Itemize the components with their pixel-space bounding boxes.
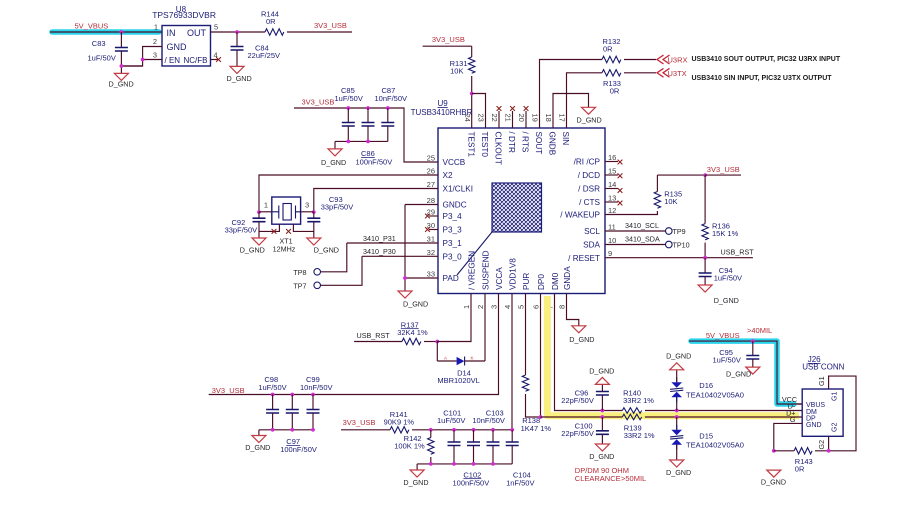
svg-text:NC/FB: NC/FB xyxy=(184,56,208,65)
note text U3RX xyxy=(692,56,841,63)
wire VCCA pin 3 to 3V3_USB rail xyxy=(209,294,499,397)
svg-text:GNDB: GNDB xyxy=(548,132,557,156)
ground D_GND at GNDB xyxy=(577,107,602,124)
svg-text:33pF/50V: 33pF/50V xyxy=(225,226,258,235)
svg-text:14: 14 xyxy=(608,180,616,189)
test point TP8 xyxy=(293,243,346,277)
svg-text:3410_SDA: 3410_SDA xyxy=(625,235,660,244)
net label 3V3_USB (top) xyxy=(314,21,347,30)
wire TEST0 branch xyxy=(472,94,486,129)
no-connect X pins 22 21 20 xyxy=(497,106,529,128)
svg-text:>50MIL: >50MIL xyxy=(621,474,646,483)
net label 3V3_USB (R141) xyxy=(343,418,376,427)
svg-text:27: 27 xyxy=(427,180,435,189)
svg-text:TEST0: TEST0 xyxy=(480,132,489,158)
svg-text:32: 32 xyxy=(427,248,435,257)
svg-text:/ DTR: / DTR xyxy=(507,132,516,153)
svg-text:G1: G1 xyxy=(832,392,839,401)
wire node to VREGEN pin 1 xyxy=(437,294,471,342)
svg-text:A: A xyxy=(444,356,447,361)
svg-text:15K 1%: 15K 1% xyxy=(712,229,739,238)
capacitor C83 1uF/50V xyxy=(88,32,143,73)
svg-text:3V3_USB: 3V3_USB xyxy=(707,165,740,174)
ground D_GND decoupling rail xyxy=(321,149,346,167)
svg-text:24: 24 xyxy=(463,114,472,122)
svg-text:23: 23 xyxy=(477,114,486,122)
svg-text:SDA: SDA xyxy=(583,241,600,250)
wire DM0 pin 7 trace xyxy=(555,294,623,413)
note text U3TX xyxy=(692,75,833,82)
svg-text:/RI /CP: /RI /CP xyxy=(574,158,601,167)
net label 3V3_USB (right) xyxy=(707,165,740,174)
svg-text:D_GND: D_GND xyxy=(666,352,691,361)
resistor R133 0R xyxy=(602,70,621,96)
svg-text:1uF/50V: 1uF/50V xyxy=(335,94,363,103)
note 40MIL xyxy=(747,326,772,335)
wire 5V_VBUS input with cyan highlight xyxy=(50,30,162,34)
svg-text:P3_4: P3_4 xyxy=(443,212,463,221)
diode D14 MBR1020VL xyxy=(437,342,485,385)
svg-text:TP10: TP10 xyxy=(673,241,690,250)
svg-text:10K: 10K xyxy=(664,197,677,206)
svg-text:9: 9 xyxy=(608,249,612,258)
wire USB GND pin xyxy=(772,423,802,452)
svg-text:K: K xyxy=(471,356,474,361)
test point TP7 xyxy=(293,256,362,290)
svg-text:PAD: PAD xyxy=(443,274,459,283)
svg-text:10nF/50V: 10nF/50V xyxy=(375,94,408,103)
svg-text:18: 18 xyxy=(544,114,553,122)
svg-text:SOUT: SOUT xyxy=(534,132,543,155)
resistor R138 1K47 1% PUR pullup xyxy=(521,294,552,433)
svg-text:/ RESET: / RESET xyxy=(568,254,600,263)
capacitor C93 33pF/50V xyxy=(307,195,353,238)
ground D_GND below C92 xyxy=(240,238,266,254)
svg-text:0R: 0R xyxy=(266,17,276,26)
svg-text:PUR: PUR xyxy=(522,273,531,290)
svg-text:P3_1: P3_1 xyxy=(443,239,463,248)
svg-text:32K4 1%: 32K4 1% xyxy=(397,328,428,337)
svg-text:10nF/50V: 10nF/50V xyxy=(472,416,505,425)
capacitor C102 100nF/50V xyxy=(453,430,490,488)
wire C98 C97 C99 ground rail xyxy=(259,428,315,436)
svg-text:D_GND: D_GND xyxy=(589,367,614,376)
capacitor C97 100nF/50V xyxy=(280,395,317,455)
capacitor C84 22uF/25V xyxy=(231,32,281,66)
svg-text:3V3_USB: 3V3_USB xyxy=(212,386,245,395)
wire X2 to crystal xyxy=(257,175,438,214)
net label 5V_VBUS (right) xyxy=(706,331,740,340)
crystal case ground stubs xyxy=(259,224,314,234)
svg-text:SIN: SIN xyxy=(561,132,570,146)
ground D_GND below C95 xyxy=(726,367,760,378)
resistor R144 0R xyxy=(261,10,284,36)
resistor R140 33R2 1% xyxy=(622,389,654,414)
capacitor C85 1uF/50V xyxy=(335,86,363,141)
pin number 2 of U8 xyxy=(153,37,157,46)
svg-text:3410_SCL: 3410_SCL xyxy=(625,221,659,230)
svg-text:MBR1020VL: MBR1020VL xyxy=(437,376,480,385)
no-connect X pins 29 30 xyxy=(425,214,438,232)
svg-text:D_GND: D_GND xyxy=(577,116,602,125)
svg-text:3410_P30: 3410_P30 xyxy=(363,247,396,256)
U9 bottom pin names xyxy=(467,250,572,290)
wire WAKEUP to R135 xyxy=(605,211,657,215)
svg-text:TP8: TP8 xyxy=(293,268,306,277)
svg-text:31: 31 xyxy=(427,235,435,244)
ground D_GND above D16 xyxy=(666,352,691,370)
svg-text:GND: GND xyxy=(806,422,822,429)
capacitor C103 10nF/50V xyxy=(472,409,505,464)
wire X1/CLKI to crystal xyxy=(312,189,438,214)
resistor R142 100K 1% xyxy=(394,430,434,464)
yellow highlight DP trace xyxy=(547,296,799,416)
net label 3V3_USB (R131 pullup) xyxy=(432,35,465,44)
ground D_GND left cap rail xyxy=(245,436,270,453)
svg-text:17: 17 xyxy=(558,114,567,122)
capacitor C92 33pF/50V xyxy=(225,212,266,238)
wire R140 to USB DM xyxy=(645,409,802,413)
svg-text:D_GND: D_GND xyxy=(403,300,428,309)
svg-text:D_GND: D_GND xyxy=(314,245,339,254)
wire VDD1V8 rail xyxy=(429,294,514,432)
svg-text:D_GND: D_GND xyxy=(569,335,594,344)
svg-text:15: 15 xyxy=(608,167,616,176)
resistor R143 0R xyxy=(774,448,813,474)
svg-text:/ RTS: / RTS xyxy=(521,132,530,153)
svg-text:G1: G1 xyxy=(817,376,826,386)
wire GNDB to ground xyxy=(553,94,589,129)
wire USB shield G1 xyxy=(815,376,856,451)
svg-text:1nF/50V: 1nF/50V xyxy=(506,478,534,487)
svg-text:3: 3 xyxy=(305,201,309,210)
svg-text:2: 2 xyxy=(476,305,485,309)
svg-text:1: 1 xyxy=(264,201,268,210)
resistor R139 33R2 1% xyxy=(622,414,655,440)
svg-text:D15: D15 xyxy=(699,431,713,440)
pin number 4 of U8 xyxy=(214,51,218,60)
wire R132 to U3RX port xyxy=(624,59,656,61)
svg-text:6: 6 xyxy=(532,305,541,309)
svg-text:U3RX: U3RX xyxy=(668,56,688,65)
svg-text:3V3_USB: 3V3_USB xyxy=(302,98,335,107)
svg-text:3V3_USB: 3V3_USB xyxy=(314,21,347,30)
svg-text:SCL: SCL xyxy=(584,227,600,236)
net 3410_SCL wire and label xyxy=(605,221,666,231)
svg-text:VCCB: VCCB xyxy=(443,158,466,167)
svg-text:P3_0: P3_0 xyxy=(443,253,463,262)
svg-text:GND: GND xyxy=(167,42,188,52)
capacitor C94 1uF/50V xyxy=(699,258,742,285)
svg-text:3V3_USB: 3V3_USB xyxy=(343,418,376,427)
svg-text:100nF/50V: 100nF/50V xyxy=(453,478,490,487)
svg-text:1: 1 xyxy=(462,305,471,309)
capacitor C95 1uF/50V xyxy=(713,341,760,367)
wire SIN to R133 xyxy=(567,73,603,128)
svg-text:D_GND: D_GND xyxy=(761,478,786,487)
net label 3V3_USB (decoupling rail) xyxy=(302,98,335,107)
svg-text:G2: G2 xyxy=(817,440,826,450)
resistor R137 32K4 1% xyxy=(397,320,439,344)
capacitor C104 1nF/50V xyxy=(506,430,535,488)
capacitor C100 22pF/50V xyxy=(561,417,609,444)
ground D_GND at PAD xyxy=(398,291,428,309)
TVS diode D15 TEA10402V05A0 xyxy=(670,417,744,460)
svg-text:5: 5 xyxy=(214,23,218,32)
U9 bottom pin numbers 1-8 xyxy=(462,305,567,309)
svg-text:25: 25 xyxy=(427,154,435,163)
wire U8 OUT to R144 xyxy=(211,30,266,34)
svg-text:16: 16 xyxy=(608,153,616,162)
svg-text:3V3_USB: 3V3_USB xyxy=(432,35,465,44)
ground D_GND below C100 xyxy=(589,444,614,461)
svg-text:/ CTS: / CTS xyxy=(579,198,600,207)
svg-text:33pF/50V: 33pF/50V xyxy=(321,203,354,212)
svg-text:20: 20 xyxy=(517,114,526,122)
ground D_GND at USB shield xyxy=(761,470,786,486)
svg-text:G: G xyxy=(790,415,796,424)
IC U9 TUSB3410RHBR body xyxy=(411,99,605,294)
resistor R136 15K 1% xyxy=(702,175,739,258)
svg-text:TEA10402V05A0: TEA10402V05A0 xyxy=(686,441,744,450)
svg-text:22: 22 xyxy=(490,114,499,122)
svg-text:G2: G2 xyxy=(832,423,839,432)
svg-text:D16: D16 xyxy=(699,381,713,390)
svg-text:/ DSR: / DSR xyxy=(578,185,600,194)
svg-text:USB3410 SIN INPUT, PIC32 U3TX: USB3410 SIN INPUT, PIC32 U3TX OUTPUT xyxy=(692,75,833,82)
svg-text:26: 26 xyxy=(427,167,435,176)
svg-text:/ EN: / EN xyxy=(165,56,181,65)
svg-text:TPS76933DVBR: TPS76933DVBR xyxy=(152,10,216,20)
ground D_GND at GNDA xyxy=(569,326,594,344)
wire U8 GND/EN to ground xyxy=(120,47,163,68)
svg-text:DM0: DM0 xyxy=(551,272,560,290)
connector J26 USB CONN xyxy=(802,355,844,436)
svg-text:CLEARANCE: CLEARANCE xyxy=(575,474,621,483)
U9 thermal pad crosshatch xyxy=(457,183,542,275)
svg-text:5: 5 xyxy=(517,305,526,309)
svg-text:X1/CLKI: X1/CLKI xyxy=(443,185,474,194)
no-connect X pins 16 15 14 13 xyxy=(605,160,622,206)
svg-text:5V_VBUS: 5V_VBUS xyxy=(75,22,109,31)
svg-text:100nF/50V: 100nF/50V xyxy=(280,445,317,454)
svg-text:1uF/50V: 1uF/50V xyxy=(88,54,116,63)
net USB_RST wire to R137 xyxy=(354,331,402,342)
svg-text:D_GND: D_GND xyxy=(109,80,134,89)
svg-text:28: 28 xyxy=(427,196,435,205)
no-connect X on U8 pin 4 NC/FB xyxy=(211,57,221,62)
svg-text:IN: IN xyxy=(167,28,176,38)
svg-text:100nF/50V: 100nF/50V xyxy=(356,157,393,166)
U9 top pin names xyxy=(467,132,571,165)
svg-text:C83: C83 xyxy=(92,39,106,48)
net USB_RST wire from RESET pin xyxy=(605,248,754,260)
svg-text:D_GND: D_GND xyxy=(666,468,691,477)
svg-text:D_GND: D_GND xyxy=(240,245,265,254)
svg-text:GNDA: GNDA xyxy=(563,266,572,290)
svg-text:2: 2 xyxy=(153,37,157,46)
svg-text:D_GND: D_GND xyxy=(726,370,751,379)
svg-text:1uF/50V: 1uF/50V xyxy=(258,383,286,392)
wire DP0 pin 6 trace xyxy=(539,294,623,419)
pin number 3 of U8 xyxy=(153,51,157,60)
crystal XT1 12MHz xyxy=(259,197,314,253)
svg-text:X2: X2 xyxy=(443,171,453,180)
capacitor C86 100nF/50V xyxy=(356,108,393,166)
svg-text:>40MIL: >40MIL xyxy=(747,326,772,335)
svg-text:1uF/50V: 1uF/50V xyxy=(714,273,742,282)
svg-text:1uF/50V: 1uF/50V xyxy=(713,355,741,364)
svg-text:22pF/50V: 22pF/50V xyxy=(561,396,594,405)
pin number 5 of U8 xyxy=(214,23,218,32)
svg-text:33R2 1%: 33R2 1% xyxy=(624,431,655,440)
svg-text:U9: U9 xyxy=(438,99,449,108)
regulator U8 TPS76933DVBR xyxy=(152,5,216,66)
ground D_GND below C94 xyxy=(698,285,739,305)
svg-text:D_GND: D_GND xyxy=(589,452,614,461)
wire SOUT to R132 xyxy=(540,60,603,129)
svg-text:19: 19 xyxy=(531,114,540,122)
svg-text:USB CONN: USB CONN xyxy=(802,362,844,371)
resistor R141 90K9 1% xyxy=(341,410,431,433)
wire GNDA pin 8 to ground xyxy=(567,294,579,326)
net 3410_P31 wire with label xyxy=(347,234,438,243)
svg-text:TEST1: TEST1 xyxy=(467,132,476,158)
svg-text:33: 33 xyxy=(427,270,435,279)
pin number 1 of U8 xyxy=(154,23,158,32)
svg-text:12: 12 xyxy=(608,206,616,215)
net 3410_SDA wire and label xyxy=(605,235,666,245)
net label 5V_VBUS (top-left) xyxy=(75,22,109,31)
svg-text:4: 4 xyxy=(503,305,512,309)
svg-text:USB_RST: USB_RST xyxy=(721,248,755,257)
ground D_GND lower rail xyxy=(403,470,428,487)
svg-text:D_GND: D_GND xyxy=(321,158,346,167)
note DP/DM clearance xyxy=(575,466,646,483)
svg-text:10: 10 xyxy=(608,236,616,245)
U9 right pin numbers 16-9 xyxy=(608,153,616,258)
svg-text:DP0: DP0 xyxy=(537,274,546,290)
capacitor C101 1uF/50V xyxy=(437,409,465,464)
svg-text:D_GND: D_GND xyxy=(403,478,428,487)
svg-text:USB3410 SOUT OUTPUT, PIC32 U3R: USB3410 SOUT OUTPUT, PIC32 U3RX INPUT xyxy=(692,56,841,63)
svg-text:/ DCD: / DCD xyxy=(578,171,600,180)
svg-text:0R: 0R xyxy=(610,87,620,96)
svg-text:1: 1 xyxy=(154,23,158,32)
svg-text:D_GND: D_GND xyxy=(227,74,252,83)
wire R144 to 3V3_USB xyxy=(287,31,352,33)
ground D_GND below C93 xyxy=(307,238,339,254)
svg-text:0R: 0R xyxy=(795,465,805,474)
svg-text:D_GND: D_GND xyxy=(245,443,270,452)
capacitor C98 1uF/50V xyxy=(258,375,286,430)
svg-text:21: 21 xyxy=(504,114,513,122)
svg-text:/ WAKEUP: / WAKEUP xyxy=(560,211,600,220)
wire 3V3_USB rail to U9 VCCB pin 25 xyxy=(294,106,438,162)
svg-text:TEA10402V05A0: TEA10402V05A0 xyxy=(686,390,744,399)
resistor R131 10K xyxy=(423,46,475,128)
ground D_GND above C96 xyxy=(589,367,614,385)
svg-text:5V_VBUS: 5V_VBUS xyxy=(706,331,740,340)
svg-text:TP9: TP9 xyxy=(673,227,686,236)
wire USB shield G2 xyxy=(817,436,830,452)
svg-text:12MHz: 12MHz xyxy=(273,244,296,253)
capacitor C87 10nF/50V xyxy=(375,86,408,141)
svg-text:1K47 1%: 1K47 1% xyxy=(521,424,552,433)
svg-text:3410_P31: 3410_P31 xyxy=(363,234,396,243)
net label 3V3_USB (bottom left rail) xyxy=(212,386,245,395)
svg-text:0R: 0R xyxy=(603,45,613,54)
svg-text:VCCA: VCCA xyxy=(495,267,504,290)
U9 left pin names xyxy=(443,158,474,283)
svg-text:SUSPEND: SUSPEND xyxy=(481,250,490,290)
svg-text:USB_RST: USB_RST xyxy=(357,331,391,340)
U9 left pin numbers 25-33 xyxy=(427,154,435,279)
svg-text:P3_3: P3_3 xyxy=(443,226,463,235)
capacitor C99 10nF/50V xyxy=(300,375,333,430)
U9 right pin names xyxy=(560,158,600,263)
wire GNDC and PAD to ground xyxy=(403,205,438,292)
svg-text:22uF/25V: 22uF/25V xyxy=(248,51,281,60)
wire lower ground rail xyxy=(417,462,512,470)
wire D14 cathode to SUSPEND pin 2 xyxy=(484,294,486,362)
net 3410_P30 wire with label xyxy=(362,247,438,256)
svg-text:10K: 10K xyxy=(450,67,463,76)
svg-text:TP7: TP7 xyxy=(293,282,306,291)
svg-text:13: 13 xyxy=(608,194,616,203)
test point TP10 xyxy=(666,241,690,250)
svg-text:90K9 1%: 90K9 1% xyxy=(384,417,415,426)
ground D_GND below D15 xyxy=(666,460,691,477)
off-page connector U3RX xyxy=(657,55,688,64)
svg-text:CLKOUT: CLKOUT xyxy=(494,132,503,165)
resistor R132 0R xyxy=(602,37,621,63)
svg-text:1uF/50V: 1uF/50V xyxy=(437,416,465,425)
ground D_GND below C84 xyxy=(227,66,252,83)
off-page connector U3TX xyxy=(657,68,687,77)
svg-text:D_GND: D_GND xyxy=(714,296,739,305)
wire 5V_VBUS to USB VBUS with cyan highlight xyxy=(689,339,802,404)
ground D_GND below C83 xyxy=(109,73,134,88)
svg-text:10nF/50V: 10nF/50V xyxy=(300,383,333,392)
svg-text:GNDC: GNDC xyxy=(443,201,467,210)
svg-text:OUT: OUT xyxy=(187,28,207,38)
wire R133 to U3TX port xyxy=(624,72,656,74)
svg-text:11: 11 xyxy=(608,223,616,232)
pin labels VCC D- D+ G xyxy=(782,395,797,424)
test point TP9 xyxy=(666,227,686,236)
svg-text:8: 8 xyxy=(558,305,567,309)
svg-text:VDD1V8: VDD1V8 xyxy=(508,258,517,290)
svg-text:100K 1%: 100K 1% xyxy=(394,441,425,450)
svg-text:U3TX: U3TX xyxy=(668,69,687,78)
capacitor C96 22pF/50V xyxy=(561,384,609,410)
resistor R135 10K xyxy=(654,175,682,208)
wire decoupling ground rail xyxy=(335,140,388,149)
TVS diode D16 TEA10402V05A0 xyxy=(670,370,744,411)
svg-text:/ VREGEN: / VREGEN xyxy=(467,251,476,290)
svg-text:22pF/50V: 22pF/50V xyxy=(561,429,594,438)
wire R139 to USB DP xyxy=(645,415,802,419)
svg-text:3: 3 xyxy=(490,305,499,309)
svg-text:3: 3 xyxy=(153,51,157,60)
svg-text:33R2 1%: 33R2 1% xyxy=(623,396,654,405)
wire R135 to 3V3_USB rail xyxy=(657,173,741,177)
U9 top pin numbers 24-17 xyxy=(463,114,567,122)
